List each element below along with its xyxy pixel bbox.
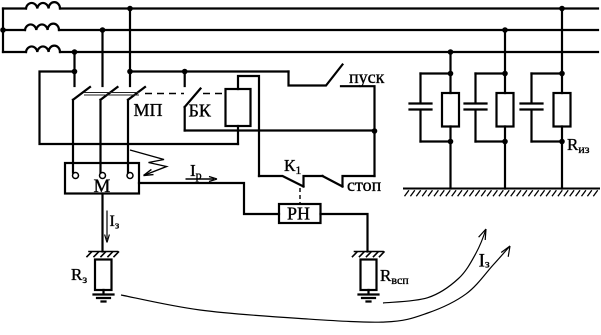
capacitor C3 [521,74,543,142]
wire motor earth lead [101,194,103,252]
pushbutton stop [323,176,375,187]
resistor branch1 [442,93,459,127]
wire coil bottom lead [237,126,239,144]
ground Rvsp [359,290,379,302]
resistor Rz [95,260,112,291]
RC branch 1 dropper [449,52,451,74]
reactor coil L3 [26,46,60,52]
resistor branch2 [497,93,514,127]
reactor coil L2 [25,24,59,30]
current arrow Iz motor [105,211,110,243]
bus line L2 [3,29,598,31]
ground Rz [94,290,114,302]
contactor contact MP1 [73,87,90,173]
wire PH left lead [139,183,279,214]
wire branch3 top [532,72,563,74]
wire coil return frame [40,72,239,145]
breakdown mark at Rz [87,252,119,257]
linkage dashed link to BK and coil [145,93,225,95]
wire BK-pusk bottom rail [185,129,375,131]
svg-text:Rвсп: Rвсп [380,266,409,287]
contactor coil MP [226,89,251,126]
block contact BK [185,72,201,131]
wire coil top lead [238,76,259,176]
earth bus [404,188,599,190]
svg-text:МП: МП [134,100,163,120]
svg-text:Iз: Iз [110,213,120,232]
svg-text:Iр: Iр [190,161,202,182]
bus line L3 [3,51,598,53]
capacitor C1 [410,74,432,142]
wire branch2 top [476,72,506,74]
resistor Rvsp [361,260,377,291]
breakdown mark at Rvsp [353,252,385,257]
earth current arc from Rz [121,246,510,322]
wire dropper phase B [101,30,103,86]
earth current arc from Rvsp [383,229,486,303]
motor terminal 3 [127,173,133,179]
wire PH right lead [321,214,368,252]
breakdown zigzag arrow at motor [130,150,167,176]
wire left bus tie [2,9,4,53]
RC branch 3 dropper [561,9,563,74]
wire dropper phase A [129,9,131,87]
motor terminal 2 [100,173,106,179]
wire branch3 bottom [532,142,563,189]
contact linkage bar [84,93,139,96]
earth bus hatching [405,190,598,196]
resistor branch3 Riz [554,93,571,127]
motor terminal 1 [73,173,79,179]
svg-text:РН: РН [287,204,310,224]
current arrow Ip [186,177,218,182]
capacitor C2 [465,74,487,142]
svg-text:К1: К1 [284,156,301,177]
contactor contact MP2 [101,87,118,173]
svg-text:Rз: Rз [71,265,87,286]
svg-text:М: М [94,176,111,197]
wire branch1 bottom [421,142,451,189]
svg-text:Iз: Iз [479,251,490,272]
wire branch2 bottom [476,142,506,189]
reactor coil L1 [26,2,60,8]
pushbutton start (pusk) [289,65,375,177]
svg-text:стоп: стоп [347,175,382,195]
motor M box [65,163,139,194]
contactor contact MP3 [128,87,145,173]
dashed link K1 to PH [299,188,301,204]
bus line L1 [3,7,598,9]
RC branch 2 dropper [504,30,506,74]
svg-text:БК: БК [189,101,212,121]
relay contact K1 [259,176,323,187]
wire control tap rail [130,70,289,72]
svg-text:пуск: пуск [349,67,385,87]
wire dropper phase C [73,52,75,86]
svg-text:Rиз: Rиз [567,135,590,156]
relay PH box [279,204,321,223]
wire branch1 top [421,72,451,74]
